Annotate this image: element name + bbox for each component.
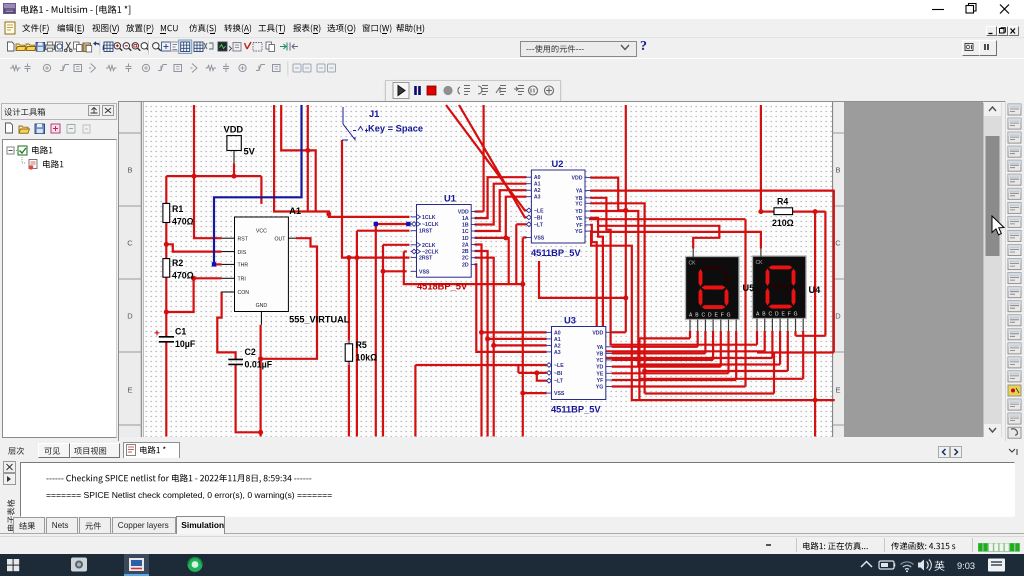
- wire to U3 A2: [494, 344, 547, 346]
- segments U4: [769, 266, 793, 270]
- wire long row 352: [757, 351, 834, 353]
- wire bottom row 393: [645, 392, 774, 394]
- svg-text:470Ω: 470Ω: [172, 271, 194, 281]
- svg-text:A3: A3: [554, 350, 561, 356]
- wire 2D to U3 A3: [475, 264, 547, 352]
- wire row to d2 F: [796, 335, 826, 337]
- wire U3 ~LE: [415, 364, 546, 366]
- svg-text:U5: U5: [743, 283, 755, 293]
- wire d1 C riser: [704, 331, 706, 353]
- svg-text:E: E: [835, 386, 840, 395]
- resistor R1: [163, 203, 170, 222]
- wire node to R5: [348, 258, 350, 344]
- svg-text:~LE: ~LE: [534, 208, 544, 214]
- wire VDD rail to 555 RST: [194, 105, 222, 238]
- wire d2 B riser: [764, 331, 766, 351]
- wire U1 VDD: [475, 210, 484, 212]
- wire blue net to THR: [214, 105, 302, 264]
- power VDD: [227, 136, 241, 151]
- IC U3 4511BP_5V: [546, 327, 612, 400]
- wire U2 YF to d2 C: [590, 225, 772, 358]
- wire drop 639: [638, 338, 640, 400]
- wire U2 VSS stub: [523, 236, 527, 238]
- svg-text:D: D: [835, 312, 841, 321]
- wire U3 YE to d1 F: [612, 372, 729, 374]
- svg-text:5V: 5V: [244, 147, 256, 157]
- svg-text:B: B: [127, 166, 132, 175]
- svg-text:~1CLK: ~1CLK: [422, 222, 439, 228]
- svg-text:~LT: ~LT: [554, 379, 564, 385]
- svg-text:555_VIRTUAL: 555_VIRTUAL: [289, 315, 350, 325]
- display U4 seven-segment showing 0: [753, 256, 807, 319]
- svg-text:B: B: [835, 166, 840, 175]
- wire VSS vertical bus: [522, 238, 524, 437]
- svg-text:U4: U4: [809, 285, 822, 295]
- segments U5: [702, 266, 726, 270]
- wire U3 YC to d1 D: [612, 359, 713, 361]
- svg-text:A2: A2: [554, 343, 561, 349]
- wire to display1 CK: [597, 226, 719, 249]
- svg-text:J1: J1: [369, 109, 379, 119]
- svg-text:YC: YC: [596, 358, 603, 364]
- svg-text:YD: YD: [596, 365, 603, 371]
- wire vertical 815: [814, 212, 816, 437]
- svg-text:VDD: VDD: [572, 176, 583, 182]
- wire 1B to U2 A1: [475, 184, 527, 225]
- svg-text:RST: RST: [238, 236, 249, 242]
- svg-text:U2: U2: [552, 159, 564, 169]
- wire U2 YD to d2 D: [590, 211, 780, 365]
- svg-text:ABCDEFG: ABCDEFG: [689, 313, 733, 319]
- resistor R2: [163, 259, 170, 278]
- svg-text:C1: C1: [175, 327, 186, 337]
- svg-text:VSS: VSS: [419, 269, 430, 275]
- wire row to d2 E: [645, 370, 788, 372]
- svg-text:U3: U3: [564, 316, 576, 326]
- wire BI link: [517, 365, 519, 373]
- svg-text:1RST: 1RST: [419, 229, 433, 235]
- wire U3 YG: [612, 385, 746, 387]
- svg-text:THR: THR: [238, 263, 249, 269]
- wire U3 VSS: [523, 392, 547, 394]
- svg-text:1C: 1C: [462, 229, 469, 235]
- wire 555 GND down: [260, 325, 262, 437]
- wire d1 E riser: [720, 331, 722, 367]
- svg-text:R1: R1: [172, 204, 183, 214]
- wire vertical at 308: [307, 105, 309, 212]
- svg-text:2B: 2B: [462, 249, 469, 255]
- svg-text:2C: 2C: [462, 256, 469, 262]
- svg-text:2CLK: 2CLK: [422, 243, 436, 249]
- wire d2 D riser: [779, 331, 781, 365]
- op timer 555 A1: [235, 217, 289, 312]
- svg-text:C2: C2: [245, 347, 256, 357]
- svg-text:2A: 2A: [462, 243, 469, 249]
- wire U3 YB to d1 C: [612, 352, 706, 354]
- wire d1 B riser: [697, 331, 699, 347]
- wire R4 right down: [824, 212, 826, 336]
- wire 555 CON to C2: [217, 292, 235, 359]
- svg-text:CK: CK: [756, 260, 764, 266]
- svg-text:R5: R5: [356, 340, 367, 350]
- svg-text:A1: A1: [534, 182, 541, 188]
- display U5 seven-segment showing b: [686, 257, 740, 320]
- wire ~LE vertical: [414, 365, 416, 437]
- svg-text:YA: YA: [576, 189, 583, 195]
- wire d2 E riser: [787, 331, 789, 371]
- wire U3 ~LT: [537, 373, 547, 381]
- svg-text:GND: GND: [256, 303, 268, 309]
- wire R5 down: [348, 361, 350, 436]
- node selection markers: [374, 222, 378, 226]
- wire d1 A riser: [689, 331, 691, 338]
- off-sheet grey area: [844, 102, 983, 437]
- wire U2 ~LT link: [516, 223, 526, 225]
- svg-text:C: C: [127, 239, 133, 248]
- wire 555 OUT to ground bus: [261, 238, 317, 359]
- svg-text:~BI: ~BI: [554, 371, 563, 377]
- svg-text:A0: A0: [534, 175, 541, 181]
- display pin stubs: [690, 249, 803, 332]
- wire 2C down: [475, 258, 494, 437]
- wire d2 A riser: [756, 331, 758, 345]
- wire ~LT vertical: [515, 224, 517, 284]
- wire VDD horizontal rail: [166, 175, 261, 177]
- svg-text:D: D: [127, 312, 133, 321]
- wire row to display2 G: [639, 378, 803, 380]
- sheet right margin: [833, 102, 844, 437]
- svg-text:470Ω: 470Ω: [172, 217, 194, 227]
- wire junction dots: [192, 174, 197, 179]
- svg-text:~LT: ~LT: [534, 222, 544, 228]
- svg-text:A1: A1: [554, 337, 561, 343]
- svg-text:U1: U1: [444, 194, 456, 204]
- wire d2 C riser: [771, 331, 773, 358]
- IC U2 4511BP_5V: [526, 170, 591, 243]
- svg-text:YB: YB: [596, 351, 603, 357]
- wire right edge vertical: [833, 191, 835, 353]
- svg-text:DIS: DIS: [238, 250, 247, 256]
- wire U2 YA long: [590, 190, 835, 192]
- svg-text:10kΩ: 10kΩ: [356, 353, 378, 363]
- svg-text:A3: A3: [534, 195, 541, 201]
- wire d1 F riser: [727, 331, 729, 373]
- svg-text:R4: R4: [777, 197, 788, 207]
- svg-text:10µF: 10µF: [175, 339, 196, 349]
- resistor R4: [774, 208, 793, 215]
- wire 2CLK vertical: [382, 245, 384, 437]
- wire riser 774: [773, 353, 775, 394]
- wire ~2CLK bus: [404, 252, 523, 285]
- wire rail to 555 VCC: [260, 176, 262, 204]
- svg-text:YE: YE: [596, 371, 603, 377]
- svg-text:1CLK: 1CLK: [422, 215, 436, 221]
- svg-text:A1: A1: [289, 206, 301, 216]
- wire U2 YC down: [590, 203, 644, 393]
- svg-text:YF: YF: [576, 223, 583, 229]
- wire C2 bottom: [236, 365, 261, 433]
- switch J1: [342, 107, 355, 141]
- wire THR link: [214, 263, 222, 265]
- svg-text:~2CLK: ~2CLK: [422, 250, 439, 256]
- svg-text:1B: 1B: [462, 223, 469, 229]
- wire R4 left lead: [761, 211, 774, 213]
- svg-text:4518BP_5V: 4518BP_5V: [417, 282, 468, 292]
- wire top rail jog: [281, 105, 316, 212]
- wire U1 1RST: [357, 230, 410, 232]
- wire diagonal to U2 ~BI: [459, 105, 526, 217]
- wire R2 to C1: [165, 277, 167, 337]
- wire U1 VDD rail up: [483, 105, 485, 212]
- wire 2A down: [475, 245, 482, 437]
- svg-text:4511BP_5V: 4511BP_5V: [531, 248, 581, 258]
- wire 1D to U2 A3: [506, 197, 527, 238]
- wire 1A to U2 A0: [475, 177, 527, 218]
- svg-text:VSS: VSS: [534, 236, 545, 242]
- wire VDD rail tall: [625, 105, 627, 332]
- svg-text:VDD: VDD: [224, 125, 244, 135]
- sheet left margin: [119, 102, 142, 437]
- svg-text:1A: 1A: [462, 216, 469, 222]
- wire VDD stub: [233, 164, 235, 177]
- svg-text:VDD: VDD: [592, 330, 603, 336]
- wire U3 VDD stub: [612, 331, 626, 333]
- svg-text:OUT: OUT: [274, 236, 286, 242]
- wire J1 to U1 2RST: [342, 140, 410, 258]
- svg-text:1D: 1D: [462, 236, 469, 242]
- svg-text:2D: 2D: [462, 262, 469, 268]
- wire U3 ~BI: [518, 372, 546, 374]
- wire to d1 A: [639, 337, 690, 339]
- svg-text:C: C: [835, 239, 841, 248]
- resistor R5: [348, 340, 350, 365]
- svg-text:YD: YD: [575, 209, 582, 215]
- wire R1 to R2: [165, 223, 167, 259]
- wire U3 YD to d1 E: [612, 366, 721, 368]
- wire 1RST vertical: [356, 231, 358, 437]
- svg-text:YE: YE: [576, 216, 583, 222]
- svg-text:TRI: TRI: [238, 277, 246, 283]
- wire rail to R4: [760, 105, 762, 212]
- wire U1 2CLK: [383, 244, 410, 246]
- wire d2 F riser: [794, 331, 796, 336]
- svg-text:YG: YG: [575, 229, 583, 235]
- svg-text:VCC: VCC: [256, 229, 267, 235]
- svg-text:CON: CON: [238, 290, 250, 296]
- wire rail to R1: [165, 176, 167, 203]
- wire row 219: [589, 218, 746, 220]
- svg-text:E: E: [127, 386, 132, 395]
- wire ~1CLK vertical: [375, 224, 377, 437]
- svg-text:ABCDEFG: ABCDEFG: [756, 312, 800, 318]
- wire top rail to U1 1CLK: [274, 105, 409, 217]
- svg-text:YF: YF: [597, 378, 604, 384]
- wire diagonal to U2 ~LE: [446, 105, 526, 210]
- svg-text:VSS: VSS: [554, 391, 565, 397]
- wire 2B down: [475, 251, 488, 437]
- svg-text:0.01µF: 0.01µF: [245, 360, 273, 370]
- wire U1 ~1CLK: [376, 223, 409, 225]
- svg-text:~LE: ~LE: [554, 363, 564, 369]
- wire C1 to ground bus: [165, 342, 167, 437]
- svg-text:YG: YG: [596, 385, 604, 391]
- wire tall vertical between displays: [744, 219, 746, 386]
- wire U2 row to display2 CK: [591, 232, 761, 249]
- capacitor C2: [228, 359, 243, 364]
- wire node to 555 TRI: [166, 278, 221, 312]
- svg-text:4511BP_5V: 4511BP_5V: [551, 405, 601, 415]
- wire link row 298: [539, 261, 626, 298]
- wire d2 G riser: [802, 331, 804, 379]
- svg-text:2RST: 2RST: [419, 256, 433, 262]
- svg-text:Key = Space: Key = Space: [368, 124, 423, 134]
- wire U3 YA to d1 B: [612, 346, 698, 348]
- svg-text:VDD: VDD: [458, 210, 469, 216]
- svg-text:~BI: ~BI: [534, 215, 543, 221]
- wire d1 G riser: [735, 331, 737, 380]
- wire U2 YB to d2 A: [590, 198, 757, 345]
- svg-text:YC: YC: [575, 201, 582, 207]
- wire to U3 A1: [488, 338, 547, 340]
- wire U2 VDD to rail: [590, 178, 626, 211]
- wire U2 YE to d2 B: [590, 218, 765, 351]
- svg-text:R2: R2: [172, 258, 183, 268]
- wire 1D bus: [475, 238, 509, 284]
- wire to U3 A0: [482, 331, 547, 333]
- wire U1 ~2CLK stub: [404, 250, 407, 252]
- svg-text:A2: A2: [534, 188, 541, 194]
- svg-text:A0: A0: [554, 330, 561, 336]
- wire U2 YG bottom row: [590, 231, 835, 400]
- wire R1/R2 node to 555 DIS: [166, 244, 221, 251]
- svg-text:CK: CK: [689, 261, 697, 267]
- IC U1 4518BP_5V: [411, 205, 478, 278]
- wire U1 VSS: [383, 270, 407, 272]
- wire d1 D riser: [712, 331, 714, 360]
- wire 1C to U2 A2: [475, 190, 527, 231]
- svg-text:YA: YA: [597, 345, 604, 351]
- wire R4 right lead: [793, 211, 826, 213]
- wire U3 YF to d1 G: [612, 379, 737, 381]
- capacitor C1: [159, 337, 174, 342]
- svg-text:210Ω: 210Ω: [772, 218, 794, 228]
